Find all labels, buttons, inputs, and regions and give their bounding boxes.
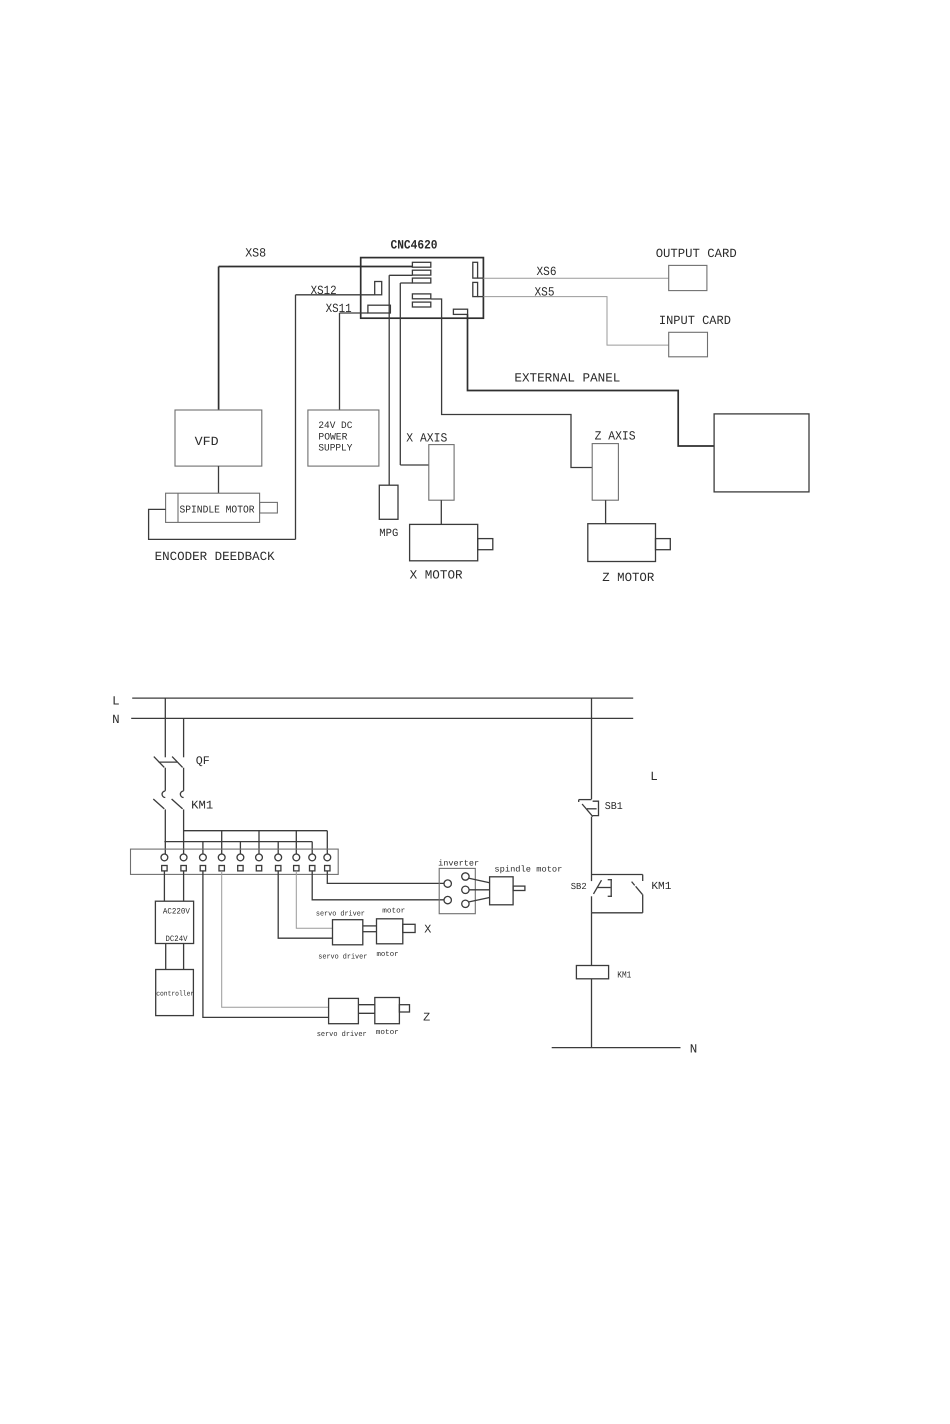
svg-text:X: X: [424, 923, 431, 937]
svg-text:motor: motor: [377, 951, 399, 959]
svg-text:XS5: XS5: [535, 285, 555, 299]
svg-text:XS12: XS12: [311, 284, 337, 298]
svg-text:N: N: [112, 713, 120, 727]
svg-text:24V DC: 24V DC: [318, 420, 352, 431]
svg-text:Z AXIS: Z AXIS: [595, 430, 636, 444]
svg-text:VFD: VFD: [195, 435, 219, 449]
svg-text:INPUT CARD: INPUT CARD: [659, 314, 731, 328]
svg-text:XS8: XS8: [245, 246, 266, 260]
svg-text:motor: motor: [382, 908, 405, 916]
svg-text:XS11: XS11: [326, 302, 352, 316]
svg-text:L: L: [650, 770, 658, 784]
svg-text:spindle motor: spindle motor: [494, 865, 562, 875]
svg-text:ENCODER DEEDBACK: ENCODER DEEDBACK: [155, 550, 275, 564]
svg-text:servo driver: servo driver: [318, 952, 367, 961]
svg-text:KM1: KM1: [617, 969, 631, 980]
svg-text:N: N: [690, 1042, 698, 1056]
svg-text:SB1: SB1: [605, 801, 623, 813]
svg-text:motor: motor: [376, 1029, 399, 1037]
svg-text:AC220V: AC220V: [163, 908, 190, 917]
svg-text:CNC4620: CNC4620: [391, 237, 438, 252]
svg-text:X MOTOR: X MOTOR: [410, 569, 463, 583]
svg-text:SB2: SB2: [571, 881, 587, 892]
svg-text:Z: Z: [423, 1011, 430, 1025]
svg-text:DC24V: DC24V: [166, 935, 188, 944]
svg-text:SUPPLY: SUPPLY: [318, 443, 352, 454]
svg-text:controller: controller: [156, 989, 194, 998]
svg-text:servo driver: servo driver: [317, 1030, 367, 1039]
svg-text:SPINDLE MOTOR: SPINDLE MOTOR: [180, 505, 255, 517]
svg-text:servo driver: servo driver: [316, 910, 365, 919]
svg-text:KM1: KM1: [191, 798, 213, 812]
svg-text:POWER: POWER: [318, 431, 347, 442]
svg-text:EXTERNAL PANEL: EXTERNAL PANEL: [514, 372, 620, 386]
svg-text:L: L: [112, 695, 120, 709]
svg-text:OUTPUT CARD: OUTPUT CARD: [656, 247, 737, 261]
svg-text:QF: QF: [196, 755, 210, 768]
svg-text:KM1: KM1: [651, 881, 671, 893]
svg-text:Z MOTOR: Z MOTOR: [602, 571, 654, 585]
svg-text:MPG: MPG: [379, 528, 398, 540]
svg-text:XS6: XS6: [537, 265, 557, 279]
svg-text:inverter: inverter: [438, 858, 479, 868]
svg-text:X AXIS: X AXIS: [406, 431, 447, 445]
